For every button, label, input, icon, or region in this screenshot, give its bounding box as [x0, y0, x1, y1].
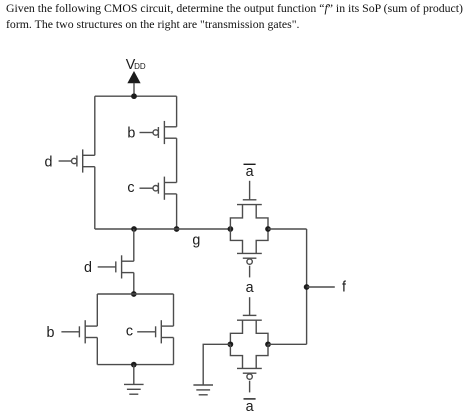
svg-text:c: c — [126, 324, 133, 340]
wire left rail lower — [94, 167, 96, 229]
node g label — [192, 232, 200, 248]
node abar label top — [246, 164, 254, 180]
transmission gate TG1 pmos — [230, 229, 268, 264]
node abar label bottom — [246, 399, 254, 415]
wire left rail upper — [94, 96, 96, 155]
junction dot parallel block top — [131, 291, 137, 297]
svg-text:c: c — [127, 180, 134, 196]
junction dot pmos rail on g node — [174, 226, 180, 232]
VDD arrow — [128, 72, 140, 96]
wire right rail top — [176, 96, 178, 127]
top VDD rail wire — [95, 95, 177, 97]
overline of abar top — [244, 163, 256, 165]
junction dot g / nmos d — [131, 226, 137, 232]
svg-text:d: d — [45, 154, 53, 170]
TG2 bottom gate wire — [249, 381, 251, 393]
wire TG1 right to f rail — [268, 228, 307, 230]
svg-text:VDD: VDD — [126, 57, 146, 73]
wire right branch upper — [173, 294, 175, 326]
svg-text:b: b — [47, 325, 55, 341]
transmission gate TG2 pmos — [230, 344, 268, 379]
TG1 bottom gate wire — [249, 266, 251, 278]
pmos d — [59, 149, 95, 172]
junction dot TG1 left — [228, 226, 234, 232]
node a label middle — [246, 280, 254, 296]
svg-text:a: a — [246, 280, 254, 296]
nmos b (label) — [47, 325, 55, 341]
nmos c — [137, 320, 173, 343]
junction dot TG1 right — [265, 226, 271, 232]
nmos d (label) — [84, 260, 92, 276]
wire a to TG2 gate — [249, 297, 251, 315]
overline of abar bottom — [244, 398, 256, 400]
wire TG2 left to ground — [203, 344, 230, 385]
wire right branch lower — [173, 338, 175, 365]
wire f rail to TG2 right — [268, 343, 307, 345]
svg-text:g: g — [192, 232, 200, 248]
wire left branch upper — [96, 294, 98, 326]
wire nmos d to parallel block — [133, 273, 135, 294]
wire right rail bottom — [176, 194, 178, 229]
wire left branch lower — [96, 338, 98, 365]
svg-text:a: a — [246, 399, 254, 415]
ground symbol right — [193, 385, 213, 395]
transmission gate TG1 nmos — [230, 200, 268, 229]
junction dot TG2 left — [228, 341, 234, 347]
parallel block top wire — [97, 293, 173, 295]
nmos c (label) — [126, 324, 133, 340]
nmos d — [98, 255, 134, 278]
wire to ground left — [133, 365, 135, 385]
TG1 top gate wire — [249, 181, 251, 200]
ground symbol left — [124, 384, 144, 394]
pmos c (label) — [127, 180, 134, 196]
parallel block bottom wire — [97, 364, 173, 366]
nmos b — [61, 320, 97, 343]
node f label — [342, 280, 346, 296]
svg-text:b: b — [127, 126, 135, 142]
node g wire — [95, 228, 231, 230]
wire f rail vertical — [306, 229, 308, 344]
pmos d (label) — [45, 154, 53, 170]
svg-text:f: f — [342, 280, 346, 296]
svg-text:d: d — [84, 260, 92, 276]
transmission gate TG2 nmos — [230, 315, 268, 344]
pmos b (label) — [127, 126, 135, 142]
wire f stub — [307, 286, 335, 288]
junction dot TG2 right — [265, 341, 271, 347]
junction dot f node — [304, 284, 310, 290]
svg-text:a: a — [246, 164, 254, 180]
pmos c — [140, 177, 177, 200]
junction dot ground node — [131, 362, 137, 368]
pmos b — [140, 121, 177, 144]
VDD label — [126, 57, 146, 73]
wire between pmos b and c — [176, 138, 178, 182]
junction dot VDD rail — [131, 93, 137, 99]
wire g to nmos d — [133, 229, 135, 261]
